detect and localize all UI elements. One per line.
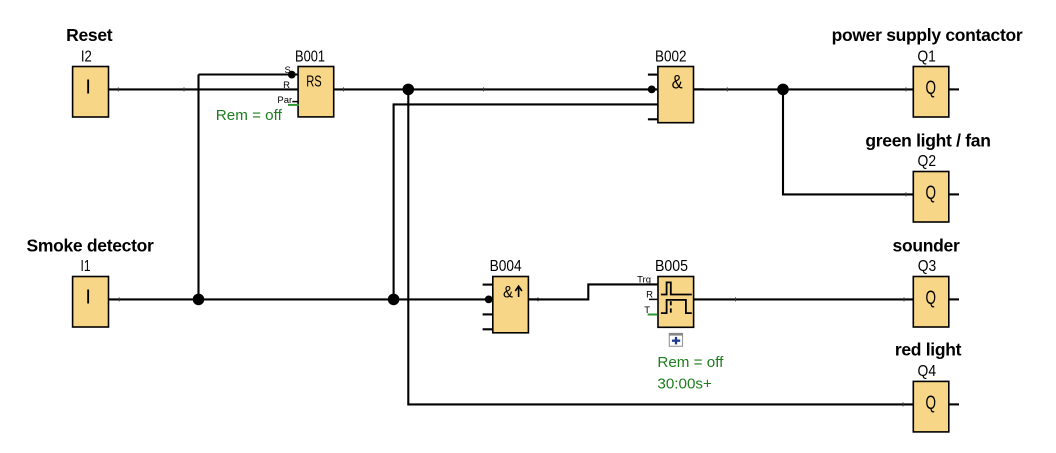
wire Q1 output stub [949,88,959,90]
svg-text:R: R [283,80,290,91]
wire I2 out to B001.R [108,88,298,90]
AND block B002 [658,67,694,123]
svg-text:Rem = off: Rem = off [657,354,724,371]
svg-text:Q1: Q1 [917,49,936,66]
svg-text:B002: B002 [655,49,687,66]
wire B004 out up to B005.Trg [529,284,659,299]
pin dot B004 input 2 [485,296,493,304]
output Q1 [913,67,949,118]
svg-text:B004: B004 [490,258,522,275]
off-delay timer B005 [658,277,694,328]
svg-text:I: I [85,77,91,99]
node N4 junction B002out/riser-Q2 [777,84,789,96]
B004 input 1 stub [483,284,493,286]
B004 input 4 stub [483,328,493,330]
svg-text:Q2: Q2 [918,153,937,170]
AND-edge block B004 [493,277,529,333]
svg-text:I1: I1 [81,258,91,275]
RS flip-flop B001 [298,67,334,117]
B002 input 1 stub [648,74,658,76]
input I2 [73,67,109,118]
svg-text:Q3: Q3 [918,258,937,275]
output Q3 [913,277,949,328]
svg-text:S: S [284,65,290,76]
svg-text:30:00s+: 30:00s+ [657,375,712,392]
node N2 junction I1/riser-B002in3 [388,294,400,306]
wire riser from node N1 up to S row [197,75,199,300]
expand icon (+) below B005 [669,333,683,346]
svg-text:Q4: Q4 [918,363,937,380]
wire handle ticks [118,87,906,406]
B002 output stub [694,88,704,90]
B002 input 4 stub [648,118,658,120]
svg-text:Q: Q [925,78,936,99]
wire riser from node N4 down to Q2 [783,89,913,194]
svg-text:I2: I2 [81,49,92,66]
svg-text:&: & [672,73,683,94]
wire Q3 output stub [949,298,959,300]
wire B005 out to Q3 [694,298,913,300]
svg-text:Reset: Reset [66,25,113,45]
svg-text:&: & [503,282,514,301]
svg-text:Smoke detector: Smoke detector [26,236,154,256]
node N1 junction I1/riser-S [193,294,205,306]
svg-text:B005: B005 [655,258,688,275]
output Q2 [913,172,949,223]
wire riser from node N2 up to B002 input 3 [394,104,658,299]
pin dot B001.S [288,71,296,79]
svg-text:RS: RS [306,73,322,90]
svg-text:sounder: sounder [893,236,960,256]
wire Q4 output stub [949,403,959,405]
B005 T parameter stub (green) [648,314,658,316]
B005 R pin stub [649,298,658,300]
wire I1 out to B004 input 2 [108,298,493,300]
node N3 junction B001out/riser-Q4 [403,84,415,96]
Par parameter stub (green) [288,104,299,106]
output Q4 [913,381,949,432]
wire Q2 output stub [949,193,959,195]
svg-text:Rem = off: Rem = off [216,107,283,124]
Par pin stub [292,101,298,103]
input I1 [73,277,109,328]
svg-text:power supply contactor: power supply contactor [832,25,1023,45]
svg-text:B001: B001 [295,49,325,66]
B004 input 3 stub [483,313,493,315]
wire riser from node N3 down to Q4 [408,89,913,404]
wire B002 out to Q1 [694,88,913,90]
svg-text:Q: Q [925,288,936,309]
svg-text:Trg: Trg [637,274,651,285]
B004 output stub [529,298,539,300]
wire B001 out to B002 input 2 [334,88,658,90]
svg-text:green light / fan: green light / fan [865,130,990,150]
svg-text:Q: Q [925,393,936,414]
svg-text:I: I [85,287,91,309]
wire S row into B001.S [199,73,299,75]
svg-text:Q: Q [925,183,936,204]
pin dot B002 input 2 [648,86,656,94]
svg-text:red light: red light [895,340,962,360]
